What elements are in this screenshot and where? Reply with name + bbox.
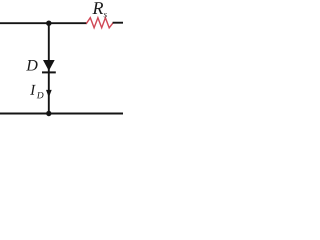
label Rs - letter R [92,2,103,14]
diode D (cathode bar) [42,71,56,73]
node junction top [46,21,51,26]
label D (diode) [26,60,37,71]
diode D (anode triangle) [43,60,55,71]
wire vertical branch [48,23,50,113]
label ID - subscript D [37,92,44,98]
node junction bottom [46,111,51,116]
wire top-right segment [113,22,123,24]
current arrow ID (arrowhead) [46,90,52,98]
label Rs - subscript s [104,13,107,17]
background [0,0,123,123]
resistor Rs (red zigzag) [87,18,113,28]
label ID - letter I [30,85,36,95]
wire bottom [0,113,123,115]
wire top-left segment [0,22,87,24]
